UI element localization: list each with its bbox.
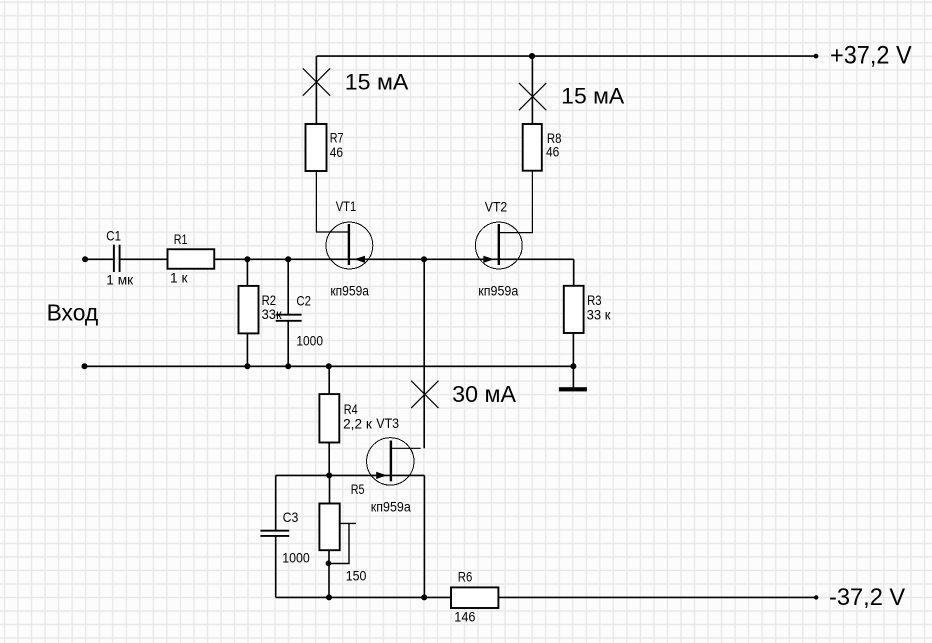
transistor VT3 [367, 438, 414, 485]
svg-text:VT2: VT2 [485, 199, 508, 215]
svg-text:R6: R6 [458, 568, 473, 584]
svg-text:Вход: Вход [47, 300, 99, 326]
wire mid vertical node to VT3 drain [423, 259, 425, 448]
wire input to C1 [85, 258, 114, 260]
node junction R2 top [244, 256, 250, 262]
svg-text:кп959а: кп959а [371, 499, 411, 515]
svg-text:кп959а: кп959а [330, 283, 369, 299]
resistor R2 [239, 286, 259, 334]
resistor R1 [168, 249, 215, 269]
svg-text:C2: C2 [296, 293, 311, 309]
node input terminal [82, 256, 88, 262]
node terminal -37,2 V [814, 595, 818, 599]
svg-text:15 мА: 15 мА [561, 84, 624, 109]
wire bottom rail left [276, 596, 451, 598]
resistor R4 [319, 394, 339, 442]
wire top rail +37,2 V [317, 55, 817, 57]
svg-text:VT1: VT1 [336, 198, 357, 214]
svg-text:1000: 1000 [296, 333, 323, 349]
wire R7 to VT1 gate [316, 171, 349, 232]
capacitor C3 [260, 531, 289, 536]
svg-text:33 к: 33 к [587, 306, 612, 322]
svg-text:R5: R5 [351, 481, 365, 497]
wire C2 bottom drop [287, 322, 289, 367]
wire R3 bottom to lower node [572, 333, 574, 366]
wire R1 to VT2 source row [214, 258, 573, 260]
wire R5 top [329, 475, 331, 503]
node terminal +37,2 V [814, 54, 819, 59]
resistor R7 [306, 124, 327, 171]
wire C3 drop [275, 475, 277, 530]
svg-text:+37,2 V: +37,2 V [830, 42, 912, 70]
wire down to R3 [573, 259, 575, 286]
wire VT3 drain horizontal [391, 447, 421, 449]
ground [559, 366, 587, 391]
wire R7 branch from top rail [315, 56, 317, 124]
svg-text:30 мА: 30 мА [452, 381, 516, 407]
resistor R3 [564, 286, 584, 333]
current-break mark X 30 mA [411, 381, 438, 408]
node junction R4 bottom / R5 top [326, 472, 332, 478]
svg-text:46: 46 [546, 143, 559, 159]
wire R8 to VT2 drain [499, 171, 533, 233]
svg-text:46: 46 [330, 144, 343, 160]
svg-text:1 к: 1 к [170, 269, 188, 285]
wire R5 wiper [328, 523, 356, 563]
wire C3 bottom drop [275, 537, 277, 598]
node lower rail input terminal [82, 363, 88, 369]
node junction mid vertical [421, 256, 427, 262]
svg-text:C3: C3 [283, 509, 299, 525]
svg-text:1000: 1000 [282, 550, 310, 566]
wire bottom rail right [498, 596, 816, 598]
resistor R8 [523, 124, 542, 171]
wire R8 branch from top rail [531, 56, 533, 124]
capacitor C1 [114, 245, 120, 272]
svg-text:1 мк: 1 мк [106, 272, 134, 288]
svg-text:150: 150 [346, 568, 367, 584]
node junction VT3 source bottom rail [421, 594, 427, 600]
wire C1 to R1 [120, 258, 168, 260]
node junction top rail / R8 branch [529, 53, 535, 59]
svg-text:2,2 к: 2,2 к [343, 415, 373, 431]
wire R2 top drop [246, 259, 248, 286]
node junction R4 top [326, 363, 332, 369]
svg-text:15 мА: 15 мА [345, 70, 409, 95]
node junction C2 bottom [285, 363, 291, 369]
node junction R5 bottom / wiper [326, 561, 332, 567]
wire R4 bottom [328, 443, 330, 476]
transistor VT2 [475, 222, 522, 269]
svg-text:C1: C1 [106, 227, 121, 243]
resistor R6 [451, 587, 498, 608]
capacitor C2 [276, 315, 302, 321]
node junction C2 top [285, 256, 291, 262]
wire R2 bottom drop [246, 333, 248, 366]
wire R4 top [328, 366, 330, 394]
wire C2 top drop [287, 259, 289, 314]
svg-text:VT3: VT3 [376, 415, 399, 431]
node junction R2 bottom [244, 363, 250, 369]
resistor R5 [319, 504, 339, 551]
wire lower node rail [85, 365, 574, 367]
node junction R5 bottom rail [326, 594, 332, 600]
svg-text:-37,2 V: -37,2 V [829, 584, 905, 611]
current-break mark X 15 mA right [519, 83, 546, 110]
wire mid vertical to bottom rail [423, 475, 425, 597]
svg-text:146: 146 [454, 608, 475, 624]
current-break mark X 15 mA left [303, 68, 330, 95]
svg-text:R1: R1 [174, 231, 188, 247]
node junction R3 bottom / ground [570, 363, 576, 369]
svg-text:R7: R7 [330, 129, 344, 145]
svg-text:кп959а: кп959а [478, 283, 518, 299]
wire VT3 source row [276, 474, 425, 476]
transistor VT1 [326, 222, 373, 269]
wire R5 bottom [328, 550, 330, 597]
